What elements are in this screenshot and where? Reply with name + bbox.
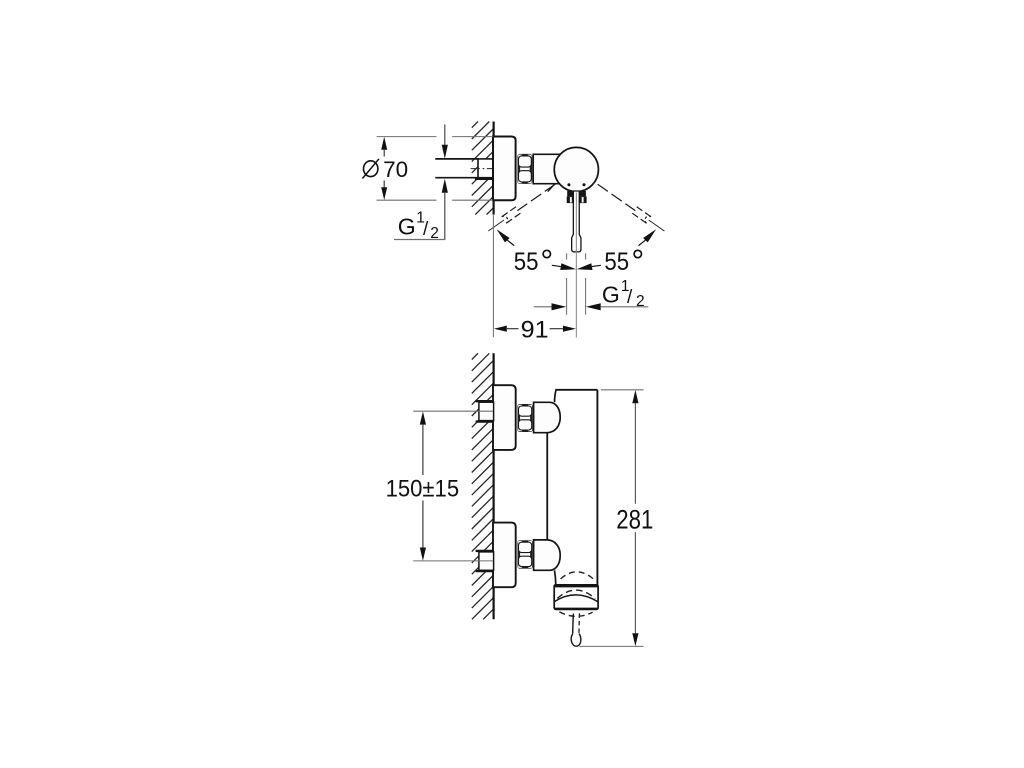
dome silhouette arc inside cap [554, 595, 598, 602]
wall extension line down to 91 dimension [492, 215, 494, 337]
diameter 70 label [364, 161, 378, 177]
hidden dome arc above cap (dashed) [561, 572, 594, 579]
wall face line (top view) [493, 122, 495, 215]
svg-text:70: 70 [383, 157, 408, 182]
svg-text:281: 281 [616, 505, 653, 535]
svg-text:G: G [602, 282, 620, 308]
svg-text:2: 2 [636, 293, 645, 310]
G1/2 outlet dimension arrows [534, 306, 552, 308]
svg-text:55: 55 [604, 249, 629, 276]
G1/2 pipe dimension line [444, 124, 446, 145]
G1/2 pipe label underline [394, 239, 445, 241]
joint edge below circle left [548, 184, 555, 191]
hidden bowl arc below cap (dashed) [559, 612, 592, 616]
mixer body left edge below union [555, 570, 556, 584]
handle tip dashed capsule left [502, 207, 516, 217]
outlet thread extension lines [567, 253, 586, 314]
S-union lower [534, 540, 561, 570]
escutcheon (top view) [493, 137, 516, 201]
handle swing dashed line left [517, 184, 555, 210]
91 dimension line + arrows [494, 326, 507, 332]
valve connector sleeve [533, 154, 563, 183]
shower outlet cap [554, 585, 598, 610]
281 bottom extension line [579, 645, 643, 647]
handle centreline [575, 193, 577, 338]
swing extension line right [649, 220, 665, 231]
150 dimension arrows and line [420, 411, 426, 424]
union nut lower (front view) [518, 540, 533, 568]
valve head circle [554, 147, 598, 191]
hose nipple neck left edge [572, 614, 575, 634]
wall face line (front view) [493, 353, 495, 619]
svg-text:/: / [627, 287, 633, 308]
55deg centre arrows (bowtie) [552, 265, 561, 266]
hidden dome arc inside cap (dashed) [557, 590, 595, 599]
55deg arrow right outer [643, 229, 656, 242]
handle tip dashed capsule right [632, 213, 646, 223]
diameter 70 dimension line + arrows [381, 137, 387, 150]
svg-text:/: / [423, 219, 429, 240]
handle swing dashed line right [598, 184, 636, 210]
handle collar [567, 191, 586, 197]
55deg arrow left outer [497, 229, 510, 242]
union nut (top view) [518, 154, 533, 184]
svg-text:91: 91 [521, 317, 549, 344]
281 top extension line [601, 389, 644, 391]
wall hatch (front view) [472, 353, 494, 619]
pivot dots [567, 183, 570, 186]
hose nipple end bulb [571, 634, 581, 647]
supply pipe stub [435, 159, 479, 178]
mixer body left edge middle [546, 433, 548, 540]
svg-text:G: G [398, 214, 416, 240]
swing extension line left [488, 220, 504, 231]
mixer body right edge [596, 390, 598, 585]
S-union upper [534, 402, 561, 432]
hose nipple neck right edge (dashed) [578, 613, 581, 633]
bolt lower in wall [479, 552, 494, 570]
diameter 70 extension lines [377, 137, 493, 201]
mixer body left edge top [555, 390, 557, 402]
connection centrelines [413, 410, 493, 412]
mixer body top cap [555, 389, 597, 391]
pipe connector bolt in wall (top view) [478, 159, 494, 178]
bolt centre mark dash-dot [471, 168, 493, 170]
escutcheon upper (front view) [493, 385, 516, 450]
svg-text:55: 55 [514, 249, 539, 276]
svg-text:150±15: 150±15 [386, 475, 460, 502]
union nut upper (front view) [518, 404, 533, 432]
bolt upper in wall [479, 402, 494, 420]
handle lever [572, 191, 581, 252]
wall hatch (top view) [472, 122, 494, 215]
svg-text:2: 2 [430, 225, 439, 242]
escutcheon lower (front view) [493, 523, 516, 588]
281 dimension line + arrows [632, 390, 638, 403]
